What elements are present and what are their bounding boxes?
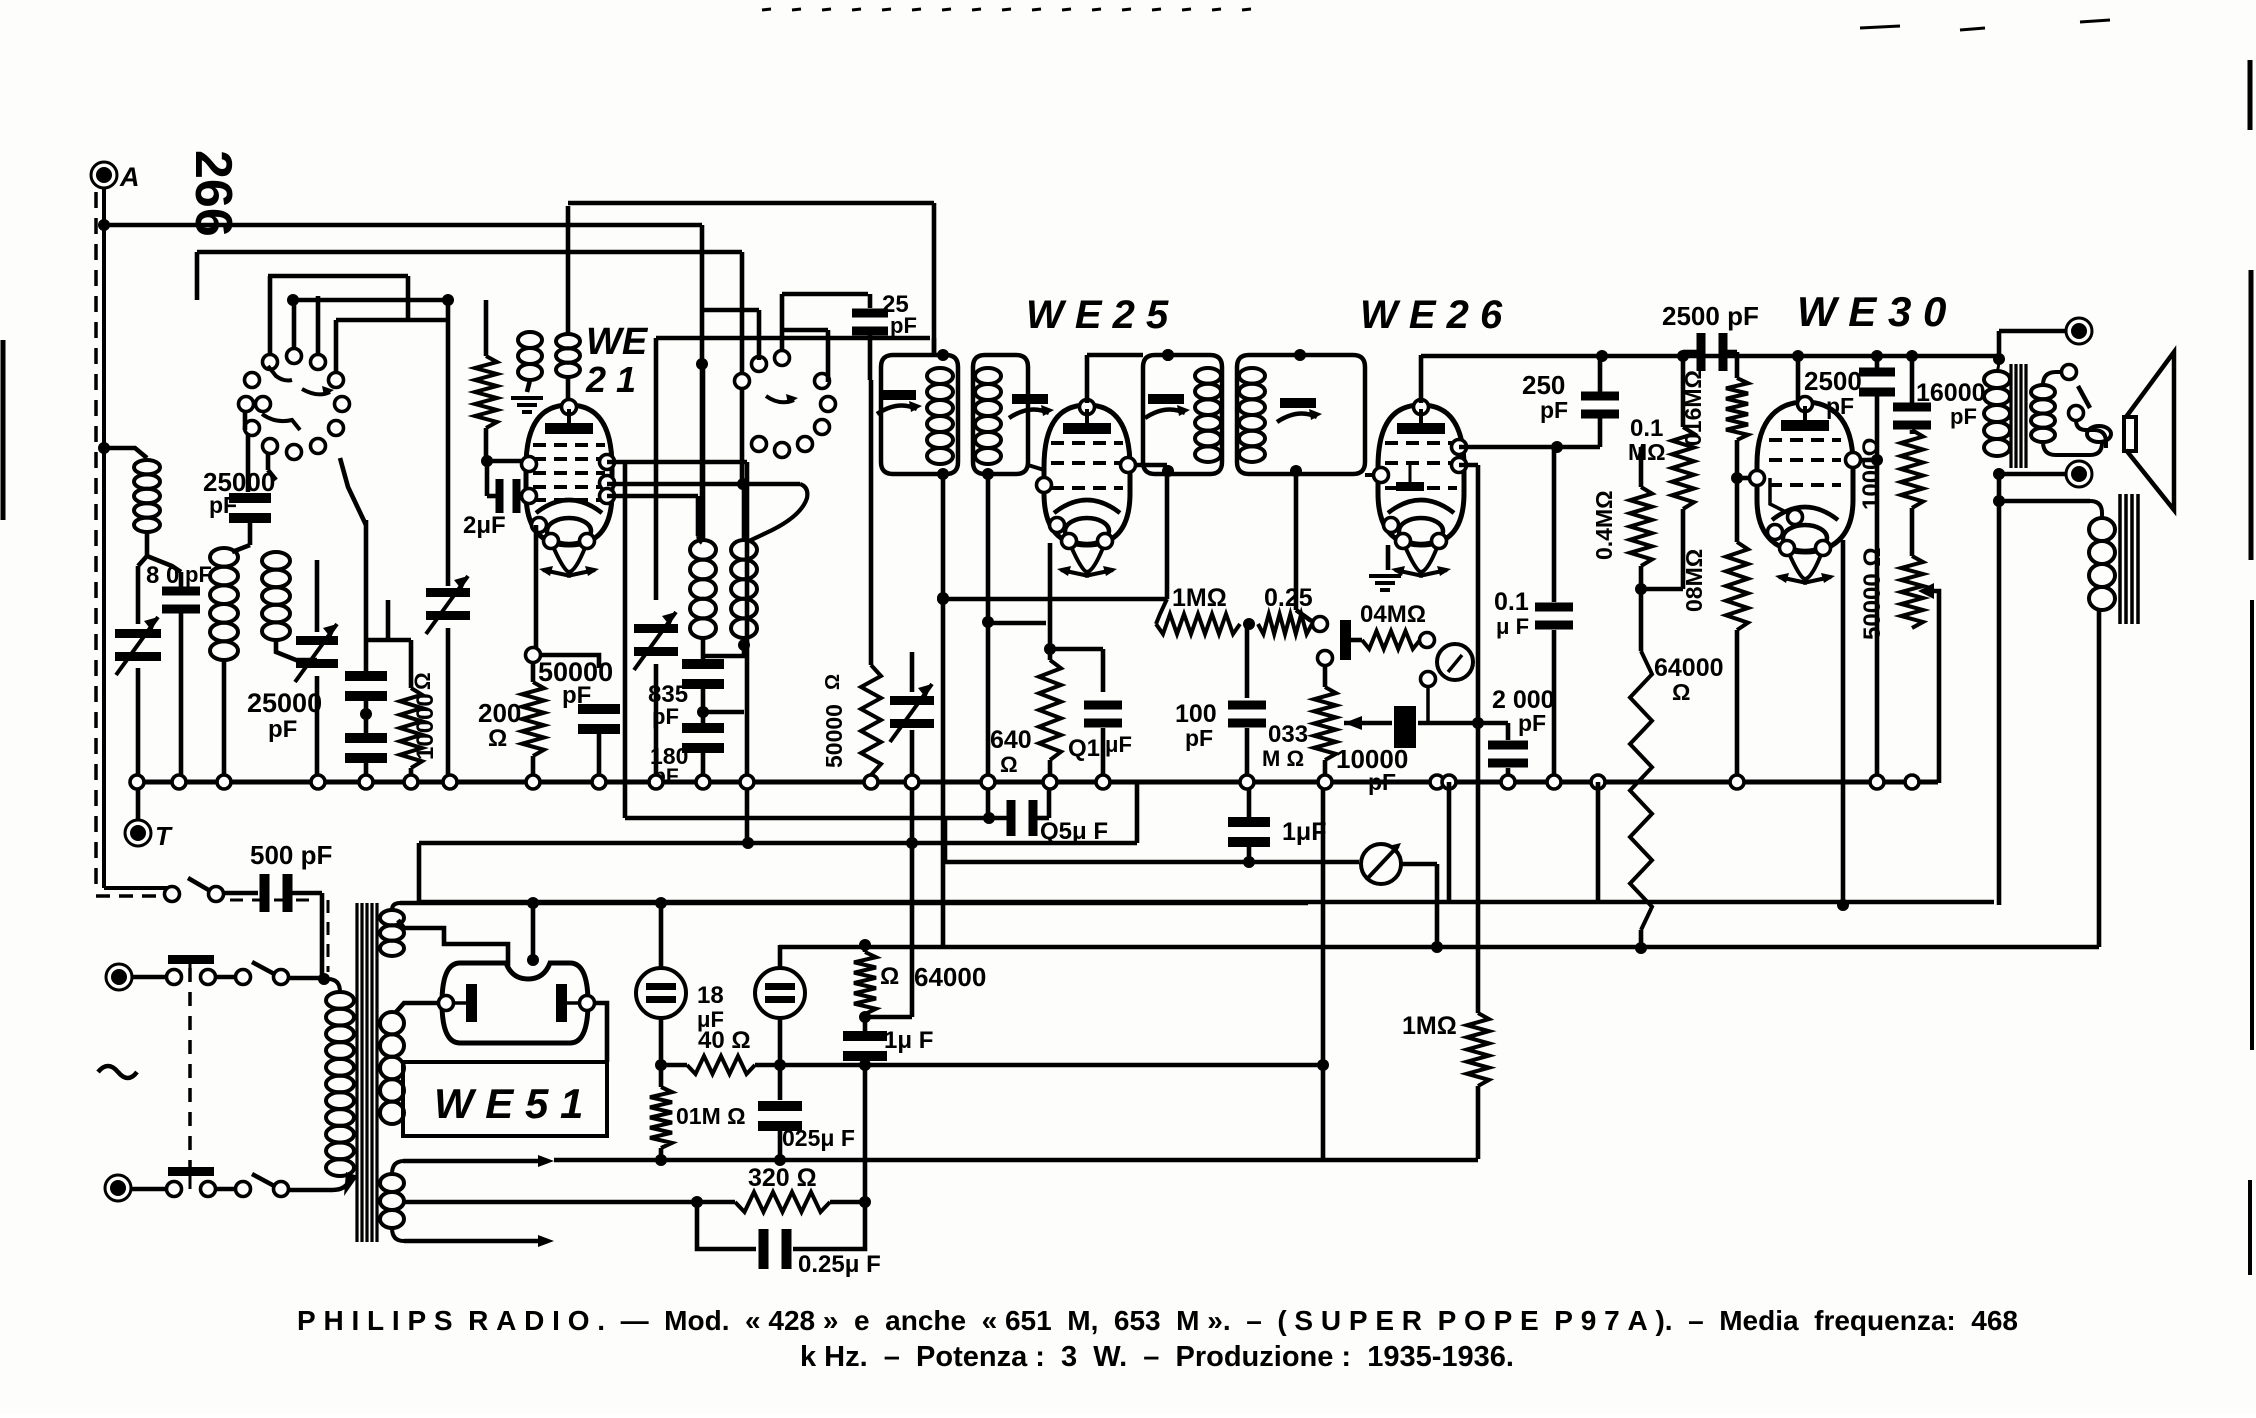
node heater rail b (774, 1059, 786, 1071)
wire IF1 pri drop (941, 474, 946, 598)
wire WE21 g2 line (607, 460, 625, 465)
svg-text:1MΩ: 1MΩ (1402, 1012, 1457, 1040)
terminal speaker - (2066, 461, 2092, 487)
capacitor 0.1uF det (1552, 447, 1557, 602)
coil osc anode Lb (556, 334, 580, 348)
pin WE21 g left b (522, 489, 537, 504)
wire switch bus b (293, 298, 448, 303)
IF2 primary trimmer (1148, 394, 1184, 404)
resistor 64000 (1639, 589, 1644, 651)
resistor 40 ohm (661, 1063, 687, 1068)
tuning meter (1361, 844, 1401, 884)
node IF2 pri bottom (1162, 465, 1174, 477)
resistor 1000 ohm (1901, 430, 1923, 508)
node sec return (982, 616, 994, 628)
node IF2 pri top (1162, 349, 1174, 361)
switch gang bar 2 (168, 1167, 214, 1176)
node det line (1551, 441, 1563, 453)
wire WE51 fil b (398, 920, 508, 966)
pin 0.25 end (1313, 617, 1328, 632)
pin mains sw a (165, 887, 180, 902)
oscillator coil L5 (742, 484, 747, 540)
pin AC sw1 b (201, 970, 216, 985)
svg-text:T: T (155, 821, 173, 851)
node cap chain (360, 708, 372, 720)
tube WE26 (1378, 405, 1464, 545)
svg-text:0.4MΩ: 0.4MΩ (1591, 490, 1617, 560)
svg-text:pF: pF (1540, 397, 1568, 423)
pot arrow (1918, 583, 1934, 599)
svg-text:0.25μ F: 0.25μ F (798, 1251, 881, 1278)
wire drop x1598 (1596, 782, 1601, 902)
anode bar WE51 left (466, 984, 477, 1022)
IF2 primary coil (1195, 368, 1221, 384)
node 10000 junction (1472, 717, 1484, 729)
IF2 secondary trimmer (1280, 398, 1316, 408)
wire AC2 (131, 1187, 166, 1192)
mains transformer primary (326, 992, 354, 1009)
wire 50000pF branch (541, 655, 599, 668)
resistor 200 ohm (531, 663, 536, 682)
pin WE21 right b (600, 476, 615, 491)
svg-text:01M Ω: 01M Ω (676, 1103, 746, 1129)
capacitor 1uF psu (863, 1017, 868, 1032)
node WE25 plate line (1162, 349, 1174, 361)
wire AVC link (943, 597, 1167, 602)
node switch line (287, 294, 299, 306)
anode bar WE51 right (556, 984, 567, 1022)
wire WE26 det line (1459, 445, 1600, 450)
node 16000 top (1906, 350, 1918, 362)
OT secondary top lead (2043, 372, 2062, 385)
wire 01uF branch (1050, 647, 1103, 652)
svg-text:Ω: Ω (488, 725, 507, 752)
node 64000 psu bottom (859, 1011, 871, 1023)
speaker voice coil ellipse (2087, 426, 2111, 442)
svg-text:200: 200 (478, 698, 521, 728)
node rail 902 (1837, 899, 1849, 911)
resistor 0.4M h (1351, 638, 1362, 643)
resistor 0.25M (1258, 614, 1312, 634)
svg-text:40 Ω: 40 Ω (698, 1027, 751, 1054)
wire WE30 grid link (1737, 476, 1750, 481)
resistor 640 ohm (1039, 660, 1061, 760)
wire grid line WE25 (1028, 465, 1044, 470)
wire AC2 b (216, 1187, 236, 1192)
wire top line 2 (197, 250, 742, 255)
node IF1 sec bottom (982, 468, 994, 480)
wire OT down (1997, 474, 2002, 905)
antenna coil L1 (134, 460, 160, 474)
node osc line2 (737, 478, 749, 490)
resistor 0.8M (1726, 542, 1748, 630)
pin AC sw2 d (274, 1182, 289, 1197)
node 320 a (691, 1196, 703, 1208)
svg-text:16000: 16000 (1916, 379, 1986, 407)
trimmer C2 (315, 560, 320, 632)
wire heater mid (392, 1228, 410, 1241)
mains transformer core (355, 903, 358, 1242)
wire WE30 filament drop (1841, 540, 1846, 905)
svg-text:Ω: Ω (410, 672, 435, 690)
wire WE21 cath drop (623, 545, 628, 818)
node meter drop (1431, 941, 1443, 953)
OT primary coil (1984, 371, 2010, 388)
svg-text:Ω: Ω (1000, 752, 1018, 777)
node 64000 bottom (1635, 942, 1647, 954)
RF coil L3 (262, 552, 290, 570)
wire HT top (400, 901, 661, 906)
resistor 1M (1156, 614, 1240, 634)
switch arm mains (188, 878, 212, 892)
coil osc anode La (518, 332, 542, 348)
wire mixer plate riser (932, 338, 937, 356)
pin WE25 screen (1121, 458, 1136, 473)
capacitor coupling bar (1340, 620, 1351, 660)
wire WE21 cath rail (625, 816, 1013, 821)
tube WE30 (1757, 402, 1853, 552)
wire drop x1449 (1447, 782, 1452, 902)
svg-text:50000: 50000 (821, 704, 847, 768)
OT secondary coil (2031, 385, 2055, 399)
wire top line to OT (1997, 331, 2002, 356)
capacitor 180pF (682, 723, 724, 733)
rotary band switch S1 (287, 349, 302, 364)
wire WE21 g4 line (607, 494, 698, 499)
svg-text:Q5μ F: Q5μ F (1040, 818, 1108, 845)
tuning varcap osc (426, 588, 470, 597)
IF1 primary trimmer (880, 390, 916, 400)
wire rail y902 (419, 900, 1994, 905)
wire switch bus c (336, 318, 448, 323)
node 640 top (1044, 643, 1056, 655)
node 835/180 junction (697, 706, 709, 718)
svg-text:2μF: 2μF (463, 512, 506, 539)
svg-text:k Hz. – Potenza : 3 W. –: k Hz. – Potenza : 3 W. – Produzione : 19… (800, 1341, 1514, 1373)
terminal A (91, 162, 117, 188)
svg-text:0.25: 0.25 (1264, 584, 1313, 612)
wire grid4 drop (745, 462, 750, 843)
node heater rail a (655, 1059, 667, 1071)
capacitor chain C4 (345, 733, 387, 743)
node IF1 pri bottom (937, 468, 949, 480)
wire T riser (136, 782, 141, 820)
wire heater top (392, 1161, 410, 1174)
capacitor 100pF (1245, 624, 1250, 698)
pin WE25 grid (1037, 478, 1052, 493)
capacitor 025uF b (697, 1202, 756, 1249)
speaker switch wire (2076, 420, 2106, 448)
wire field return riser (2097, 610, 2102, 947)
field coil (2089, 518, 2115, 541)
svg-text:100: 100 (1175, 700, 1217, 728)
wire rail y843 (419, 841, 1137, 846)
svg-text:1μ F: 1μ F (884, 1027, 933, 1054)
node 2uF junction (481, 455, 493, 467)
oscillator coil L4 (701, 364, 706, 540)
wire WE51 fil a (531, 903, 536, 958)
svg-text:50000 Ω: 50000 Ω (1859, 547, 1886, 640)
svg-text:A: A (119, 162, 140, 192)
node IF1 pri top (937, 349, 949, 361)
node 320 b (859, 1196, 871, 1208)
ground WE26 (1386, 545, 1391, 570)
node 1M-0.25 (1243, 618, 1255, 630)
wire WE30 screen link (1860, 458, 1877, 463)
wire IF1 down (941, 598, 946, 947)
wire osc line2 corner (740, 252, 745, 480)
svg-text:Q1: Q1 (1068, 735, 1100, 762)
svg-text:μF: μF (1105, 732, 1132, 757)
svg-text:W E 2 6: W E 2 6 (1360, 293, 1503, 337)
svg-text:2 1: 2 1 (585, 359, 636, 400)
svg-text:0.1: 0.1 (1494, 588, 1529, 616)
capacitor 2500pF series (1683, 350, 1697, 355)
pin WE21 right a (600, 455, 615, 470)
pin AC sw2 a (167, 1182, 182, 1197)
node OT top (1993, 353, 2005, 365)
wire osc top line (656, 336, 930, 341)
wire switch drop 2 (266, 452, 271, 470)
pin WE26 diode r (1452, 458, 1467, 473)
svg-text:8 0: 8 0 (146, 562, 179, 589)
svg-text:Ω: Ω (1672, 679, 1690, 705)
scan speck row top (762, 9, 2110, 30)
electrolytic 2 (755, 968, 805, 1018)
wire WE30 plate riser (1796, 356, 1801, 400)
node WE51 fil top (527, 954, 539, 966)
wire IF2 pri drop (1165, 465, 1170, 599)
resistor 10000 ohm (409, 640, 414, 688)
svg-text:25000: 25000 (247, 688, 322, 718)
wire heater rail (755, 1063, 1323, 1068)
tube WE51 (442, 963, 588, 1043)
pin WE51 right (580, 996, 595, 1011)
wire sec return drop (986, 623, 991, 818)
wire to 500pF (224, 891, 258, 896)
OT core (2009, 364, 2012, 468)
svg-text:μ F: μ F (1496, 614, 1529, 639)
pin 200ohm top (526, 648, 541, 663)
node WE30 grid (1731, 472, 1743, 484)
svg-text:pF: pF (890, 313, 917, 338)
terminal AC 2 (105, 1175, 131, 1201)
wire switch drop 1 (243, 410, 248, 430)
svg-text:pF: pF (209, 492, 237, 518)
wire 320 line (403, 1200, 697, 1205)
capacitor 2500pF b (1875, 356, 1880, 368)
svg-text:MΩ: MΩ (1628, 439, 1666, 465)
wire padder below (910, 843, 915, 1017)
terminal T (125, 820, 151, 846)
wire WE21 bottom pin drop (534, 525, 539, 648)
svg-text:1μF: 1μF (1282, 818, 1326, 846)
svg-text:pF: pF (562, 682, 591, 709)
switch arm AC2 (252, 1174, 278, 1188)
resistor grid leak WE21 (484, 300, 489, 356)
svg-text:pF: pF (268, 716, 297, 743)
node IF2 sec bottom (1290, 465, 1302, 477)
pin WE30 grid (1750, 471, 1765, 486)
wire top loop (568, 201, 934, 206)
pin WE30 screen (1846, 453, 1861, 468)
pin WE21 right c (600, 489, 615, 504)
wire switch bus a (268, 274, 408, 279)
wire coil to caps fork (138, 556, 147, 566)
IF1 primary coil (927, 368, 953, 384)
wire AC2 to transformer (289, 1188, 332, 1193)
wire bus drop x1323 (1321, 784, 1326, 1158)
pin AC sw2 b (201, 1182, 216, 1197)
pin AC sw2 c (236, 1182, 251, 1197)
pin AC sw1 a (167, 970, 182, 985)
node OT bottom a (1993, 468, 2005, 480)
tube WE25 (1044, 405, 1130, 545)
wire HT to right (661, 901, 1308, 906)
OT primary entry (1997, 356, 1999, 371)
pin WE51 left (439, 996, 454, 1011)
wire 1uF down (863, 1065, 868, 1202)
wire 1M drop (1476, 723, 1481, 1013)
svg-text:W E 5 1: W E 5 1 (434, 1080, 583, 1127)
capacitor 80pF (179, 572, 184, 590)
resistor 1M bottom (1467, 1013, 1489, 1086)
wire osc line corner (700, 225, 705, 540)
switch arm AC1 (252, 962, 278, 976)
speaker cone (2126, 352, 2174, 510)
capacitor 1uF det (1247, 784, 1252, 820)
svg-text:Ω: Ω (880, 963, 899, 990)
wire to antenna coil (104, 448, 147, 458)
pin WE26 grid (1374, 468, 1389, 483)
diode anode bar WE26 (1396, 482, 1424, 491)
pin WE21 g left a (522, 457, 537, 472)
svg-text:W E 2 5: W E 2 5 (1026, 293, 1169, 337)
svg-text:pF: pF (1826, 393, 1854, 419)
IF2 secondary frame (1237, 355, 1365, 474)
IF1 primary frame (881, 355, 958, 474)
antenna down-lead dashed pair (102, 188, 106, 888)
svg-text:pF: pF (1185, 725, 1213, 751)
capacitor 25 pF (868, 294, 873, 308)
wire AC1 to transformer (289, 976, 324, 981)
node mains top (318, 973, 330, 985)
capacitor 2uF (487, 494, 497, 499)
IF1 secondary coil (975, 368, 1001, 384)
resistor 01M psu (659, 1065, 664, 1087)
electrolytic 18uF (659, 903, 664, 968)
capacitor 2000pF (1478, 721, 1508, 726)
pin AC sw1 d (274, 970, 289, 985)
node top line b (1677, 350, 1689, 362)
wire WE25 cathode (1048, 543, 1053, 649)
resistor 50000 osc (869, 380, 874, 665)
wire antenna top line (104, 223, 702, 228)
wire AC1 b (216, 975, 236, 980)
node IF2 sec top (1294, 349, 1306, 361)
wire meter line (943, 820, 948, 861)
resistor 320 ohm (735, 1192, 830, 1212)
svg-text:04MΩ: 04MΩ (1360, 601, 1426, 628)
svg-text:033: 033 (1268, 721, 1308, 748)
capacitor 500pF (260, 874, 270, 912)
page edge right (2248, 60, 2253, 130)
svg-text:320 Ω: 320 Ω (748, 1164, 817, 1192)
pin 033 top (1318, 651, 1333, 666)
svg-text:Ω: Ω (822, 674, 844, 690)
node 1065 end (1317, 1059, 1329, 1071)
bus crossing circles (130, 775, 144, 789)
terminal AC 1 (106, 964, 132, 990)
node HT mid (527, 897, 539, 909)
pin mains sw b (209, 887, 224, 902)
rotary band switch S2 (735, 374, 750, 389)
wire WE26 plate top (1419, 355, 1424, 403)
speaker driver (2124, 417, 2136, 451)
IF2 secondary coil (1239, 368, 1265, 384)
svg-text:WE: WE (586, 321, 649, 363)
svg-text:pF: pF (1950, 404, 1977, 429)
IF2 primary frame (1143, 355, 1222, 474)
svg-text:025μ F: 025μ F (782, 1125, 855, 1151)
ground symbol La (511, 396, 543, 400)
heater winding (380, 1174, 404, 1192)
capacitor 25000pF top (246, 434, 251, 492)
wire 64000 link (865, 1015, 912, 1020)
node bias a (655, 1154, 667, 1166)
node OT bottom b (1993, 495, 2005, 507)
resistor 50000 pot (1901, 556, 1923, 628)
RF coil L2 (210, 548, 238, 567)
svg-text:pF: pF (1518, 710, 1546, 736)
wire 25pF feed (782, 292, 868, 297)
wire heater rail 2 (404, 1239, 548, 1244)
svg-text:64000: 64000 (914, 962, 986, 992)
node top line a (1596, 350, 1608, 362)
OT secondary bottom lead (2043, 442, 2102, 455)
capacitor 50000pF (578, 704, 620, 714)
capacitor 0.5uF (1007, 800, 1016, 836)
capacitor 835pF (682, 659, 724, 669)
node osc line (696, 358, 708, 370)
svg-text:1MΩ: 1MΩ (1172, 584, 1227, 612)
label AC tilde (98, 1066, 137, 1078)
pin AC sw1 c (236, 970, 251, 985)
pin WE26 plate r (1452, 440, 1467, 455)
trimmer 10000pF (1394, 706, 1416, 748)
resistor 64000 psu (863, 945, 868, 952)
variable capacitor C1 (136, 566, 141, 624)
padder varcap 2 (910, 652, 915, 692)
node 05uF (983, 812, 995, 824)
pot circle (1437, 644, 1473, 680)
wire bias rail (403, 1159, 548, 1164)
svg-text:0.1: 0.1 (1630, 415, 1663, 442)
svg-text:2500: 2500 (1804, 366, 1862, 396)
node antenna coil tap (98, 442, 110, 454)
node antenna junction (98, 219, 110, 231)
wire field coil link (1999, 499, 2090, 504)
wire rail y944 (779, 945, 2099, 950)
switch gang dashed (188, 968, 192, 1168)
svg-text:M Ω: M Ω (1262, 746, 1304, 771)
resistor 0.16M (1735, 352, 1740, 378)
wire meter out (1401, 862, 1437, 867)
bus chassis rail (136, 780, 1938, 785)
wire WE25 plate riser (1085, 355, 1090, 403)
svg-text:64000: 64000 (1654, 654, 1724, 682)
svg-text:10000: 10000 (412, 693, 439, 760)
